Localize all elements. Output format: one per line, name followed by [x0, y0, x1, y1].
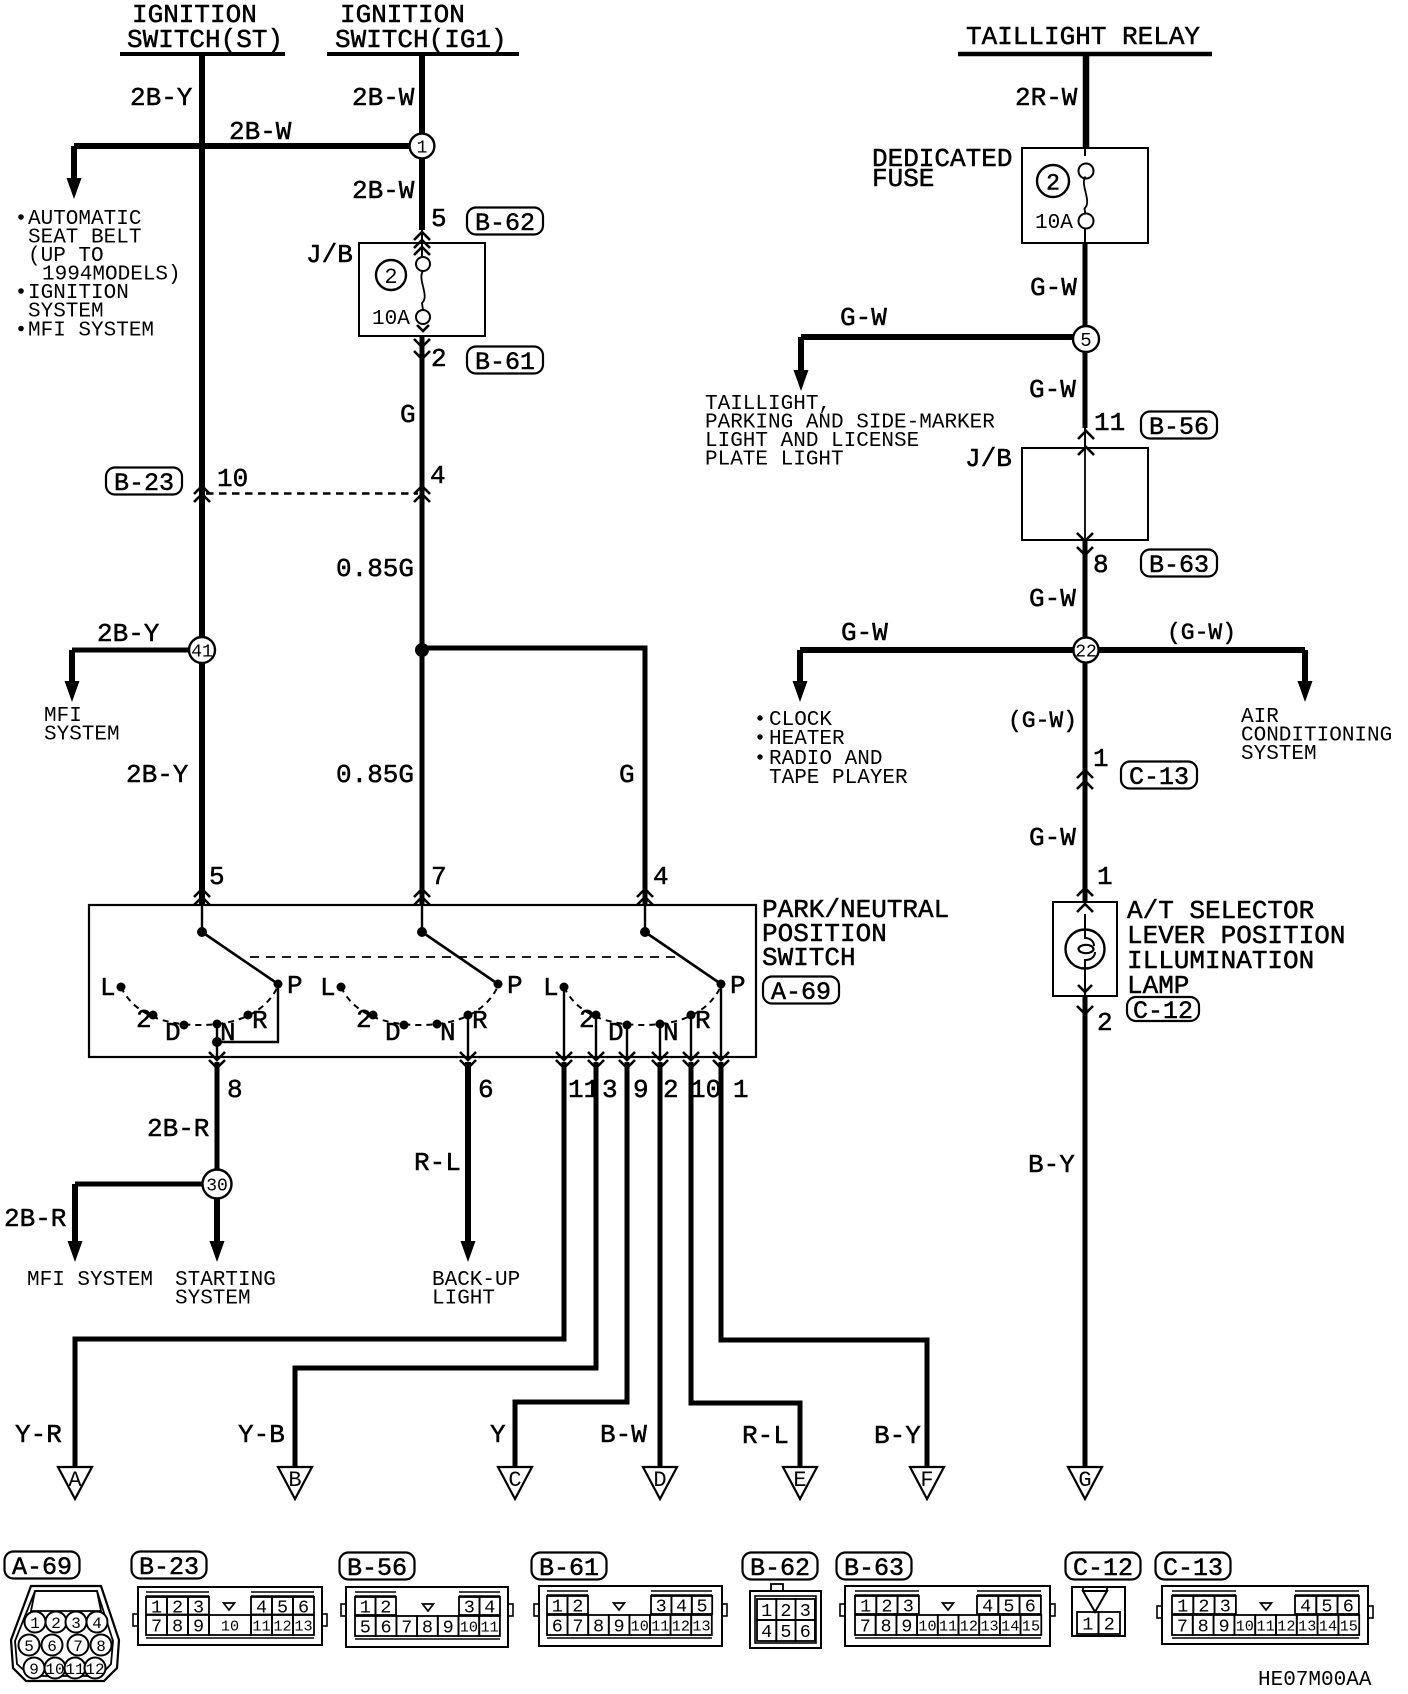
svg-text:G-W: G-W [841, 618, 888, 648]
node 22 junction circle [1073, 637, 1098, 662]
svg-text:Y: Y [490, 1420, 506, 1450]
svg-text:15: 15 [1022, 1617, 1040, 1635]
svg-text:G-W: G-W [1029, 823, 1076, 853]
svg-text:R: R [695, 1006, 711, 1036]
svg-text:L: L [543, 973, 559, 1003]
svg-text:41: 41 [191, 642, 213, 662]
svg-text:A-69: A-69 [771, 978, 831, 1007]
label B-W [600, 1420, 647, 1450]
svg-text:B-23: B-23 [139, 1553, 199, 1582]
svg-text:D: D [385, 1018, 401, 1048]
svg-text:6: 6 [380, 1618, 391, 1639]
wire Y-R from pin 11 to connector A [75, 1062, 564, 1467]
connector pinout B-62 [750, 1584, 821, 1648]
svg-text:D: D [165, 1018, 181, 1048]
svg-text:13: 13 [1298, 1617, 1316, 1635]
wire 2B-W from ignition switch IG1 down to node 1 [419, 55, 425, 137]
wire (G-W) from node 22 to C-13 [1083, 662, 1088, 902]
svg-text:6: 6 [47, 1638, 57, 1656]
pin 6 label [478, 1075, 494, 1105]
connector label C-13 [1121, 762, 1197, 793]
lamp symbol [1066, 904, 1105, 996]
annotation list: automatic seat belt, ignition system, MFI system [18, 208, 180, 343]
svg-text:10: 10 [221, 1617, 239, 1635]
svg-text:2B-Y: 2B-Y [126, 760, 189, 790]
svg-text:B-W: B-W [600, 1420, 647, 1450]
pin 11 of connector B-56 [1094, 408, 1125, 438]
wire Y-B from pin 3 to connector B [295, 1062, 596, 1467]
svg-text:J/B: J/B [965, 444, 1012, 474]
svg-text:8: 8 [172, 1617, 183, 1638]
pin 5 of park/neutral switch [209, 862, 225, 892]
svg-text:9: 9 [901, 1617, 912, 1638]
svg-text:L: L [320, 973, 336, 1003]
svg-text:4: 4 [430, 461, 446, 491]
svg-text:SYSTEM: SYSTEM [175, 1288, 251, 1311]
label (G-W) right branch [1167, 620, 1236, 646]
svg-text:2B-Y: 2B-Y [130, 83, 193, 113]
svg-text:4: 4 [653, 862, 669, 892]
label Y [490, 1420, 506, 1450]
svg-text:N: N [663, 1018, 679, 1048]
label 2B-Y at node 41 [97, 619, 160, 649]
wire G branch right [422, 648, 645, 905]
wire 2B-W from node 1 to J/B fuse [419, 158, 425, 257]
wire through right J/B [1077, 448, 1093, 541]
dashed connector boundary line B-23 [206, 492, 418, 495]
marker above lamp box [1077, 888, 1093, 896]
connector label B-56 [1141, 412, 1217, 443]
svg-text:10: 10 [45, 1661, 64, 1679]
svg-text:12: 12 [85, 1661, 104, 1679]
svg-text:13: 13 [692, 1617, 710, 1635]
wire G-W branch left to clock heater radio [793, 650, 1074, 702]
svg-text:5: 5 [360, 1618, 371, 1639]
svg-text:C-13: C-13 [1129, 763, 1189, 792]
label J/B left [306, 240, 353, 270]
svg-text:2R-W: 2R-W [1015, 83, 1078, 113]
triangle connector E [783, 1467, 817, 1499]
park/neutral switch section 1 (pin 5, contacts L 2 D N R P, N to pin 8) [100, 905, 303, 1057]
svg-text:10: 10 [690, 1075, 721, 1105]
park/neutral switch section 3 (pin 4, all contacts out) [543, 905, 746, 1057]
connector B-61 inline marker [414, 339, 430, 359]
connector label B-62 [467, 208, 543, 239]
label 2B-R [147, 1114, 209, 1144]
svg-text:11: 11 [65, 1661, 84, 1679]
wire G from J/B down to junction with 0.85G [420, 336, 425, 648]
triangle connector G [1068, 1467, 1102, 1499]
svg-text:G-W: G-W [840, 303, 887, 333]
component IGNITION SWITCH(ST) title [120, 0, 285, 55]
svg-text:1: 1 [417, 138, 428, 158]
svg-text:J/B: J/B [306, 240, 353, 270]
svg-text:9: 9 [633, 1075, 649, 1105]
svg-text:0.85G: 0.85G [336, 554, 414, 584]
label R-L to E [742, 1421, 789, 1451]
junction block J/B (left) box [359, 243, 485, 336]
svg-text:TAILLIGHT RELAY: TAILLIGHT RELAY [966, 22, 1200, 52]
svg-text:22: 22 [1075, 642, 1097, 662]
marker at switch pin 7 [414, 889, 430, 905]
triangle connector C [498, 1467, 532, 1499]
svg-text:11: 11 [480, 1618, 498, 1636]
svg-text:2: 2 [384, 265, 397, 290]
svg-text:G: G [1078, 1468, 1091, 1493]
svg-text:4: 4 [92, 1615, 102, 1633]
pin 3 label [602, 1075, 618, 1105]
component IGNITION SWITCH(IG1) title [327, 0, 519, 55]
svg-text:1: 1 [1082, 1615, 1093, 1636]
connector C-13 inline marker [1077, 770, 1093, 789]
svg-text:SWITCH(ST): SWITCH(ST) [127, 25, 283, 55]
label G-W left branch [841, 618, 888, 648]
svg-text:1: 1 [30, 1615, 40, 1633]
pin 2 label [663, 1075, 679, 1105]
svg-text:10: 10 [1236, 1617, 1254, 1635]
svg-text:8: 8 [880, 1617, 891, 1638]
label B-Y to F [874, 1421, 921, 1451]
pin 11 label [568, 1075, 599, 1105]
label G [400, 400, 416, 430]
svg-text:B-63: B-63 [1149, 551, 1209, 580]
connector label B-61 [467, 347, 543, 378]
svg-text:G-W: G-W [1029, 584, 1076, 614]
svg-text:7: 7 [1177, 1617, 1188, 1638]
label 0.85G [336, 554, 414, 584]
svg-text:14: 14 [1319, 1617, 1337, 1635]
label MFI SYSTEM (left) [44, 705, 120, 747]
label R-L [414, 1148, 461, 1178]
svg-text:9: 9 [1218, 1617, 1229, 1638]
svg-text:8: 8 [1093, 550, 1109, 580]
node 5 junction circle [1073, 326, 1099, 352]
connector B-62 inline marker [414, 232, 430, 248]
svg-text:3: 3 [71, 1615, 81, 1633]
svg-text:2: 2 [1104, 1615, 1115, 1636]
svg-text:10: 10 [460, 1618, 478, 1636]
svg-text:7: 7 [860, 1617, 871, 1638]
node 1 junction circle [410, 134, 435, 159]
svg-text:12: 12 [960, 1617, 978, 1635]
triangle connector B [278, 1467, 312, 1499]
wire R-L from pin 6 to back-up light [461, 1062, 476, 1262]
pin 1 label [733, 1075, 749, 1105]
label G-W above lamp [1029, 823, 1076, 853]
svg-text:2B-W: 2B-W [352, 176, 415, 206]
svg-text:P: P [730, 971, 746, 1001]
svg-text:G-W: G-W [1029, 375, 1076, 405]
node 41 junction circle [189, 637, 215, 663]
connector label B-61 (bottom) [532, 1553, 607, 1584]
marker below pin 8 [209, 1052, 225, 1068]
svg-text:2: 2 [663, 1075, 679, 1105]
svg-text:B-61: B-61 [539, 1554, 599, 1583]
svg-text:11: 11 [939, 1617, 957, 1635]
svg-text:C: C [508, 1468, 521, 1493]
label G-W on branch [840, 303, 887, 333]
svg-text:2: 2 [579, 1005, 595, 1035]
svg-text:13: 13 [980, 1617, 998, 1635]
svg-text:11: 11 [1256, 1617, 1274, 1635]
wire 2B-W horizontal branch to automatic seat belt systems [74, 143, 422, 149]
wire 2R-W from taillight relay to dedicated fuse [1083, 54, 1090, 148]
connector label C-12 (bottom) [1066, 1553, 1141, 1584]
svg-text:SYSTEM: SYSTEM [1241, 743, 1317, 766]
label DEDICATED FUSE [872, 144, 1012, 194]
fuse element in left J/B [416, 257, 430, 331]
annotation taillight parking side-marker license [705, 393, 995, 472]
junction block J/B (right) box [1022, 448, 1148, 540]
connector label B-63 [1141, 550, 1217, 581]
label BACK-UP LIGHT [432, 1269, 520, 1311]
svg-text:A: A [68, 1468, 82, 1493]
chevron into J/B [414, 247, 430, 255]
svg-text:G: G [400, 400, 416, 430]
annotation air conditioning system [1241, 706, 1392, 766]
svg-text:B-63: B-63 [844, 1554, 904, 1583]
svg-text:7: 7 [151, 1617, 162, 1638]
svg-text:2B-R: 2B-R [4, 1204, 66, 1234]
svg-text:N: N [440, 1018, 456, 1048]
wire G-W from node 5 to J/B [1083, 351, 1088, 448]
connector pinout B-23 [133, 1587, 327, 1645]
connector label B-62 (bottom) [743, 1553, 818, 1584]
svg-text:1: 1 [761, 1601, 772, 1622]
svg-text:TAPE PLAYER: TAPE PLAYER [769, 767, 908, 790]
svg-text:5: 5 [24, 1638, 34, 1656]
pin 1 of connector C-13 [1093, 744, 1109, 774]
svg-text:D: D [608, 1018, 624, 1048]
svg-text:10: 10 [918, 1617, 936, 1635]
label Y-R [15, 1420, 62, 1450]
svg-text:7: 7 [401, 1618, 412, 1639]
connector marker on G wire [414, 486, 430, 502]
svg-text:1: 1 [1093, 744, 1109, 774]
label MFI SYSTEM bottom [27, 1269, 153, 1292]
svg-text:11: 11 [1094, 408, 1125, 438]
marker at switch pin 5 [194, 889, 210, 905]
svg-text:B-56: B-56 [347, 1554, 407, 1583]
dedicated fuse box [1022, 148, 1148, 243]
connector pinout B-56 [341, 1587, 513, 1647]
svg-text:L: L [100, 973, 116, 1003]
pin 4 label on IG1 wire [430, 461, 446, 491]
pin 2 of connector B-61 [431, 344, 447, 374]
drawing number HE07M00AA [1258, 1669, 1372, 1692]
marker below pin 9 [619, 1052, 635, 1068]
marker below lamp box [1077, 1006, 1093, 1014]
connector label A-69 [763, 977, 839, 1008]
svg-text:9: 9 [443, 1618, 454, 1639]
marker below pin 11 [556, 1052, 572, 1068]
label 2B-R lower left [4, 1204, 66, 1234]
svg-text:2: 2 [136, 1005, 152, 1035]
label G lower [619, 760, 635, 790]
svg-text:3: 3 [800, 1601, 811, 1622]
svg-text:2: 2 [431, 344, 447, 374]
svg-text:15: 15 [1340, 1617, 1358, 1635]
wire G-W from J/B to node 22 [1083, 540, 1088, 650]
svg-text:2B-Y: 2B-Y [97, 619, 160, 649]
svg-text:HE07M00AA: HE07M00AA [1258, 1669, 1372, 1692]
label 10A dedicated fuse [1035, 212, 1073, 235]
marker below pin 10 [683, 1052, 699, 1068]
svg-text:B-62: B-62 [475, 209, 535, 238]
wire Y from pin 9 to connector C [515, 1062, 627, 1467]
svg-text:SYSTEM: SYSTEM [44, 724, 120, 747]
svg-text:2B-W: 2B-W [229, 117, 292, 147]
svg-text:A-69: A-69 [12, 1553, 72, 1582]
svg-text:7: 7 [572, 1617, 583, 1638]
svg-text:P: P [507, 971, 523, 1001]
wire 2B-Y branch to MFI system [65, 650, 191, 702]
connector label B-63 (bottom) [837, 1553, 912, 1584]
pin 1 of lamp [1097, 862, 1113, 892]
svg-text:5: 5 [780, 1622, 791, 1643]
label 2B-W horizontal [229, 117, 292, 147]
wire to starting system [210, 1198, 225, 1262]
svg-text:R: R [252, 1006, 268, 1036]
svg-text:14: 14 [1001, 1617, 1019, 1635]
label Y-B [238, 1420, 285, 1450]
svg-text:9: 9 [193, 1617, 204, 1638]
wire 2B-Y from ignition switch ST down to park/neutral switch pin 5 [199, 55, 205, 905]
connector label B-56 (bottom) [340, 1553, 415, 1584]
svg-text:G-W: G-W [1030, 273, 1077, 303]
wire 0.85G from junction down to switch pin 7 [420, 650, 425, 905]
connector label A-69 (bottom) [5, 1552, 80, 1583]
label STARTING SYSTEM [175, 1269, 276, 1311]
node 30 junction circle [203, 1170, 232, 1199]
label J/B right [965, 444, 1012, 474]
svg-text:Y-R: Y-R [15, 1420, 62, 1450]
svg-text:N: N [220, 1018, 236, 1048]
triangle connector F [910, 1467, 944, 1499]
svg-text:5: 5 [431, 204, 447, 234]
connector pinout A-69 [11, 1586, 119, 1681]
label 2B-W [352, 83, 415, 113]
wire G-W from dedicated fuse to node 5 [1083, 243, 1088, 337]
connector pinout C-12 [1072, 1587, 1125, 1636]
label 2B-Y [130, 83, 193, 113]
pin 7 of park/neutral switch [431, 862, 447, 892]
svg-text:PLATE LIGHT: PLATE LIGHT [705, 449, 844, 472]
svg-text:9: 9 [614, 1617, 625, 1638]
svg-text:8: 8 [593, 1617, 604, 1638]
connector pinout B-61 [534, 1586, 727, 1646]
label 10A left fuse [372, 308, 410, 331]
label PARK/NEUTRAL POSITION SWITCH [762, 895, 949, 973]
triangle connector D [643, 1467, 677, 1499]
svg-text:8: 8 [422, 1618, 433, 1639]
svg-text:12: 12 [273, 1617, 291, 1635]
node junction dot on G wire [415, 643, 429, 657]
svg-text:8: 8 [227, 1075, 243, 1105]
svg-text:D: D [653, 1468, 666, 1493]
svg-text:3: 3 [602, 1075, 618, 1105]
pin 10 label [690, 1075, 721, 1105]
marker below pin 1 [713, 1052, 729, 1068]
svg-text:9: 9 [29, 1661, 39, 1679]
svg-text:G: G [619, 760, 635, 790]
pin 10 of connector B-23 [217, 464, 248, 494]
svg-text:2: 2 [1046, 170, 1060, 196]
svg-text:10: 10 [217, 464, 248, 494]
A/T selector lever position illumination lamp box [1053, 902, 1117, 996]
fuse 2 circled number [376, 260, 406, 290]
svg-text:2: 2 [780, 1601, 791, 1622]
svg-text:C-12: C-12 [1073, 1554, 1133, 1583]
svg-text:8: 8 [1198, 1617, 1209, 1638]
svg-text:B-23: B-23 [114, 469, 174, 498]
marker at switch pin 4 [637, 889, 653, 905]
svg-text:FUSE: FUSE [872, 164, 934, 194]
svg-text:6: 6 [478, 1075, 494, 1105]
label 2B-Y lower [126, 760, 189, 790]
annotation clock heater radio tape player [757, 709, 908, 790]
park/neutral position switch box [89, 905, 756, 1057]
label G-W above node 5 [1030, 273, 1077, 303]
connector label B-23 [106, 468, 182, 499]
pin 2 of lamp [1097, 1008, 1113, 1038]
label G-W above node 22 [1029, 584, 1076, 614]
component TAILLIGHT RELAY title [958, 22, 1212, 54]
triangle connector A [58, 1467, 92, 1499]
svg-text:B-56: B-56 [1149, 413, 1209, 442]
svg-text:0.85G: 0.85G [336, 760, 414, 790]
svg-text:1: 1 [733, 1075, 749, 1105]
fuse element in dedicated fuse box [1079, 148, 1094, 243]
svg-text:5: 5 [1080, 330, 1091, 352]
svg-text:8: 8 [96, 1638, 106, 1656]
svg-text:30: 30 [206, 1176, 228, 1196]
marker below pin 2 [652, 1052, 668, 1068]
marker below pin 6 [460, 1052, 476, 1068]
svg-text:12: 12 [672, 1617, 690, 1635]
svg-text:7: 7 [431, 862, 447, 892]
pin 8 of connector B-63 [1093, 550, 1109, 580]
svg-text:LIGHT: LIGHT [432, 1288, 495, 1311]
svg-text:12: 12 [1277, 1617, 1295, 1635]
connector label C-12 [1127, 997, 1199, 1026]
marker below pin 3 [588, 1052, 604, 1068]
svg-text:2: 2 [356, 1005, 372, 1035]
pin 4 of park/neutral switch [653, 862, 669, 892]
svg-text:F: F [920, 1468, 933, 1493]
svg-text:C-13: C-13 [1163, 1554, 1223, 1583]
svg-text:(G-W): (G-W) [1167, 620, 1236, 646]
svg-text:E: E [793, 1468, 806, 1493]
svg-text:SWITCH: SWITCH [762, 943, 856, 973]
svg-text:R-L: R-L [742, 1421, 789, 1451]
svg-text:2B-R: 2B-R [147, 1114, 209, 1144]
svg-text:10: 10 [631, 1617, 649, 1635]
svg-text:MFI SYSTEM: MFI SYSTEM [27, 1269, 153, 1292]
svg-text:R-L: R-L [414, 1148, 461, 1178]
svg-text:13: 13 [294, 1617, 312, 1635]
wire R-L from pin 10 to connector E [691, 1062, 800, 1467]
label A/T SELECTOR LEVER POSITION ILLUMINATION LAMP [1127, 896, 1345, 1001]
svg-text:B: B [288, 1468, 301, 1493]
svg-text:(G-W): (G-W) [1008, 708, 1077, 734]
svg-text:MFI SYSTEM: MFI SYSTEM [28, 320, 154, 343]
svg-text:7: 7 [73, 1638, 83, 1656]
wire (G-W) branch right to air conditioning [1098, 650, 1313, 702]
svg-text:SWITCH(IG1): SWITCH(IG1) [335, 25, 507, 55]
wire B-W from pin 2 to connector D [658, 1062, 663, 1467]
svg-text:B-Y: B-Y [874, 1421, 921, 1451]
